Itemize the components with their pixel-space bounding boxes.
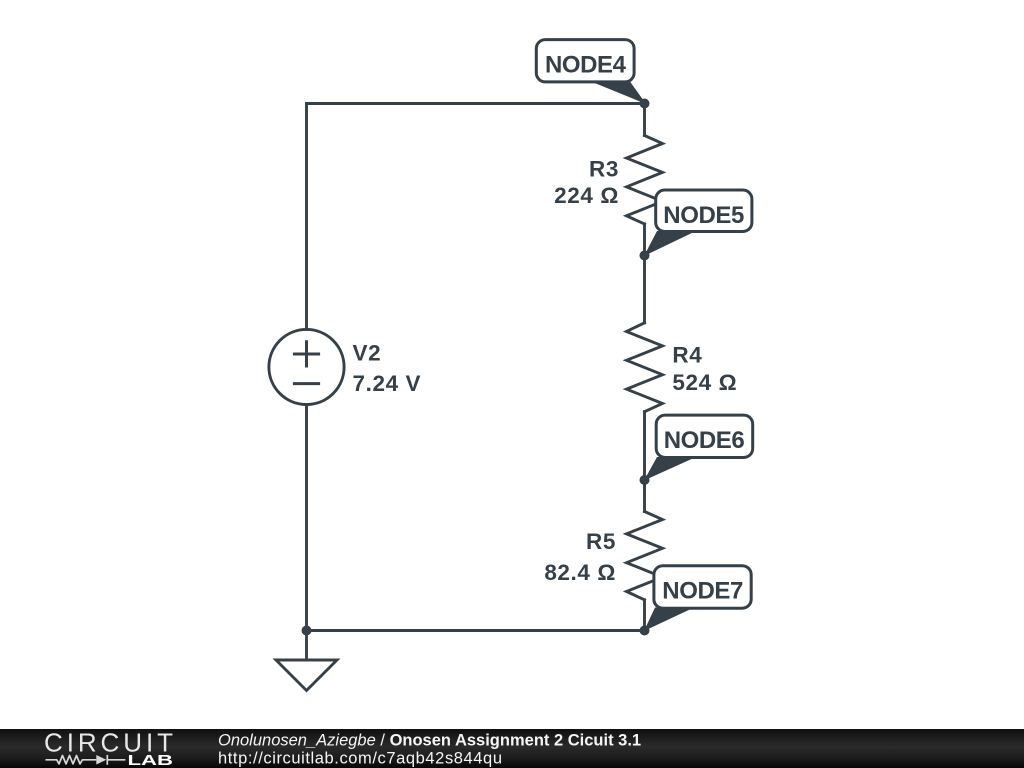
node NODE6 flag bubble: [656, 415, 753, 457]
node NODE5 junction dot: [640, 251, 650, 261]
svg-text:R3: R3: [589, 157, 619, 182]
wire bottom horizontal: [307, 629, 645, 632]
CircuitLab logo diode cathode bar: [106, 755, 108, 765]
node NODE6 junction dot: [640, 475, 650, 485]
svg-text:R4: R4: [672, 342, 702, 367]
ground stem: [305, 631, 308, 661]
svg-text:524 Ω: 524 Ω: [672, 370, 737, 395]
wire R3 to node5: [643, 224, 646, 256]
node NODE6 flag tail: [644, 457, 696, 481]
wire left vertical lower: [305, 405, 308, 631]
CircuitLab logo diode triangle: [96, 755, 106, 765]
svg-text:NODE6: NODE6: [664, 427, 745, 454]
svg-text:82.4 Ω: 82.4 Ω: [544, 560, 616, 585]
CircuitLab logo diode wire: [108, 759, 125, 761]
node NODE4 flag bubble: [536, 40, 634, 82]
wire node6 to R5: [643, 480, 646, 512]
ground triangle: [276, 660, 337, 691]
resistor R5: [627, 512, 663, 600]
wire top horizontal: [307, 102, 645, 105]
CircuitLab logo resistor squiggle: [46, 756, 97, 764]
resistor R4: [627, 323, 663, 412]
svg-text:NODE4: NODE4: [545, 52, 627, 79]
voltage source V2 plus sign: [294, 342, 318, 366]
wire node5 to R4: [643, 256, 646, 323]
svg-text:NODE5: NODE5: [663, 202, 744, 229]
wire R5 to node7: [643, 600, 646, 631]
svg-text:LAB: LAB: [128, 752, 174, 768]
node NODE5 flag bubble: [656, 190, 752, 232]
voltage source V2 minus sign: [294, 382, 318, 385]
svg-text:V2: V2: [353, 341, 382, 366]
node NODE7 junction dot: [640, 626, 650, 636]
ground junction dot: [302, 626, 312, 636]
footer bar: [0, 729, 1024, 768]
svg-text:NODE7: NODE7: [662, 578, 743, 605]
svg-text:7.24 V: 7.24 V: [353, 371, 422, 396]
node NODE5 flag tail: [644, 231, 696, 256]
svg-text:R5: R5: [586, 529, 616, 554]
node NODE4 junction dot: [640, 99, 650, 109]
svg-text:Onolunosen_Aziegbe / Onosen As: Onolunosen_Aziegbe / Onosen Assignment 2…: [218, 732, 641, 750]
wire right rail node4 to R3: [643, 104, 646, 136]
wire left vertical upper: [305, 104, 308, 330]
voltage source V2 circle: [269, 329, 344, 404]
resistor R3: [627, 136, 663, 225]
node NODE7 flag tail: [644, 608, 694, 632]
node NODE7 flag bubble: [654, 566, 751, 609]
wire R4 to node6: [643, 412, 646, 480]
svg-text:224 Ω: 224 Ω: [554, 183, 619, 208]
svg-text:http://circuitlab.com/c7aqb42s: http://circuitlab.com/c7aqb42s844qu: [218, 749, 502, 767]
node NODE4 flag tail: [591, 82, 646, 105]
